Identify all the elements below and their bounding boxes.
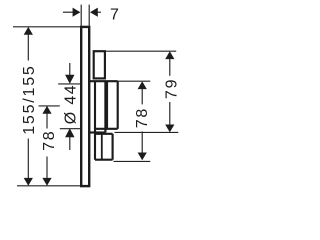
svg-text:78: 78 <box>41 129 58 150</box>
78 right arrows <box>138 81 147 89</box>
78 left arrows <box>42 106 51 114</box>
svg-text:155/155: 155/155 <box>21 64 38 134</box>
dim 155/155 line <box>27 34 29 60</box>
plate (escutcheon side view) <box>81 27 89 186</box>
o44 arrows <box>65 75 74 84</box>
lower box right edge <box>112 134 114 160</box>
dim 7: extension lines above plate <box>80 5 82 26</box>
svg-text:78: 78 <box>134 107 151 128</box>
dim 155/155 extension top <box>13 26 80 28</box>
grip bottom edge <box>95 128 118 130</box>
dim 78 left line <box>46 113 48 128</box>
upper box (shut-off handle sleeve) <box>94 51 105 78</box>
middle flange right edge <box>104 81 106 132</box>
middle flange top edge <box>90 80 118 82</box>
lower box bottom edge <box>95 159 113 161</box>
lower box top edge <box>95 133 113 135</box>
middle flange bottom edge <box>90 131 106 133</box>
svg-text:79: 79 <box>163 78 180 99</box>
dim 78 left: extension <box>39 105 60 107</box>
dim 7: leader lines <box>63 11 74 13</box>
dim o44 extensions <box>58 83 80 85</box>
155/155 arrows <box>24 27 33 35</box>
dim 79 line <box>169 58 171 75</box>
svg-text:7: 7 <box>110 6 119 23</box>
dim 79 extensions <box>106 50 176 52</box>
bottom extension <box>17 185 80 187</box>
svg-text:Ø 44: Ø 44 <box>62 84 79 124</box>
arrowheads <box>24 8 175 186</box>
grip right edge <box>117 81 119 129</box>
lower box inner line <box>101 134 103 160</box>
dim 78 right extensions <box>118 80 151 82</box>
grip left edge <box>106 81 108 129</box>
dimension lines (thin) <box>13 5 178 186</box>
middle flange left edge <box>94 81 96 160</box>
dimension texts <box>21 6 180 151</box>
dim 7 arrows <box>73 8 81 17</box>
dim 78 right line <box>141 88 143 104</box>
dim o44 line stubs <box>69 63 71 75</box>
79 arrows <box>165 51 174 59</box>
